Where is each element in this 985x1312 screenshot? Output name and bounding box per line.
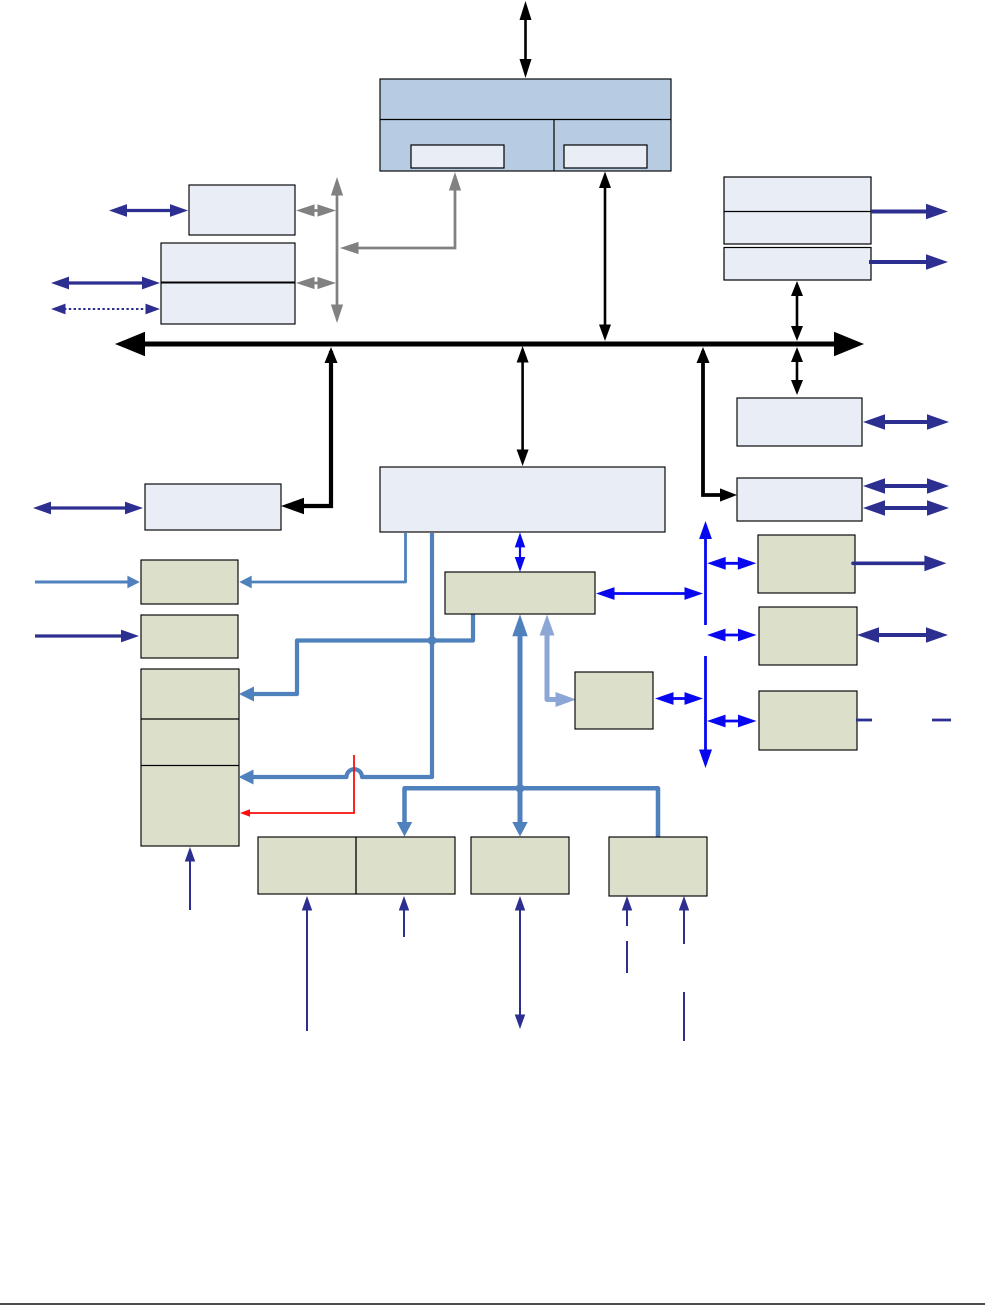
wire: top system-bus double arrow bbox=[524, 18, 527, 61]
box: debug interface block L1 bbox=[189, 185, 295, 235]
wire: steel junction dot v4-h2 bbox=[516, 784, 525, 793]
arrow: steel elbow bridge to K1 bbox=[250, 533, 406, 582]
wire: main system bus horizontal bbox=[143, 342, 836, 347]
arrow: gray elbow from CPU sub-block to gray bus bbox=[357, 188, 455, 248]
wire: stack divider 1 bbox=[141, 718, 239, 720]
arrow: blue double to khaki R2 bbox=[724, 634, 741, 637]
arrow: navy double from R0a right bbox=[883, 420, 929, 424]
arrow: light-steel elbow khaki-center to small box bbox=[547, 632, 556, 700]
box: peripheral bridge (center) bbox=[380, 467, 665, 532]
box: right oscillator block (two cells) bbox=[724, 177, 871, 244]
box: khaki block R2 bbox=[759, 607, 857, 665]
box: khaki block R3 bbox=[759, 691, 857, 750]
arrow: navy thin short up into B1 right bbox=[403, 909, 405, 938]
box: khaki small block bbox=[575, 672, 653, 729]
box: khaki stack three cells bbox=[141, 669, 239, 846]
wire: blue vertical bus upper bbox=[704, 537, 707, 625]
box: khaki block K2 bbox=[141, 615, 238, 658]
wire: gray vertical bus bbox=[336, 194, 339, 307]
arrow: navy thin up into stack bottom bbox=[189, 860, 191, 911]
box: CPU top block (medium blue) bbox=[380, 79, 671, 171]
box: bottom khaki B2 bbox=[471, 837, 569, 894]
wire: L2 divider bbox=[161, 282, 295, 284]
arrow: red elbow to stack row3 bbox=[250, 755, 354, 813]
box: CPU inner sub-block right bbox=[564, 145, 647, 168]
wire: steel junction dot v2-h1 bbox=[428, 636, 437, 645]
arrow: blue double khaki-center to blue bus bbox=[613, 592, 687, 595]
arrow: black elbow bus to box C1 bbox=[300, 351, 331, 506]
arrow: steel elbow khaki-center to stack row1 bbox=[252, 611, 473, 694]
arrow: blue double to khaki R1 bbox=[724, 562, 740, 565]
arrow: black elbow bus to R0b bbox=[703, 351, 722, 495]
arrow: navy double from R2 bbox=[877, 633, 928, 637]
arrow: gray double-head L1 to gray bus bbox=[313, 209, 320, 212]
arrow: steel elbow bridge to stack row3 with hop over red bbox=[252, 533, 432, 777]
box: bottom khaki B1 (two cells) bbox=[258, 837, 455, 894]
arrow: black double bus to peripheral bridge bbox=[521, 361, 524, 452]
box: block C1 bbox=[145, 484, 281, 530]
wire: B1 divider bbox=[355, 837, 357, 894]
box: khaki block R1 bbox=[758, 535, 855, 593]
arrow: black double osc-block to bus bbox=[796, 294, 799, 328]
box: right clock output block bbox=[724, 248, 871, 281]
arrow: steel vertical DMA double with branch bbox=[518, 634, 523, 824]
box: bottom khaki B3 bbox=[609, 837, 707, 896]
arrow: navy thin long up into B1 left bbox=[306, 909, 308, 1032]
box: block R0b bbox=[737, 478, 862, 521]
box: left block L2 (two cells) bbox=[161, 243, 295, 324]
arrow: navy out of R1 bbox=[853, 561, 926, 565]
arrow: black double bus to box R0a bbox=[796, 360, 799, 382]
arrow: navy double to C1 bbox=[49, 506, 127, 509]
arrow: navy out of clock output bbox=[869, 260, 928, 264]
arrow: navy out of oscillator row2 bbox=[871, 210, 928, 214]
arrow: navy double-head to L1 bbox=[125, 209, 172, 212]
arrow: navy double from R0b right upper bbox=[883, 484, 929, 488]
arrow: navy thin up into B3 right bbox=[683, 909, 685, 945]
wire: navy dash right of R3 inner bbox=[856, 719, 872, 722]
arrow: black double CPU to main bus bbox=[604, 186, 607, 327]
arrow: navy dotted double-head to L2 lower bbox=[64, 308, 148, 310]
arrow: navy into K2 left bbox=[35, 634, 123, 637]
wire: right oscillator divider bbox=[724, 211, 871, 213]
box: CPU inner sub-block left bbox=[411, 145, 504, 168]
box: khaki block K1 bbox=[141, 560, 238, 604]
box: khaki center block bbox=[445, 572, 595, 614]
arrow: steel branch to bottom boxes bbox=[405, 788, 659, 840]
box: flash/RAM block R0a bbox=[737, 398, 862, 446]
wire: CPU block inner divider vertical bbox=[553, 120, 555, 172]
wire: CPU block inner divider horizontal bbox=[380, 119, 671, 121]
arrow: navy thin double under B2 bbox=[519, 909, 521, 1017]
wire: navy dash right of R3 outer bbox=[932, 719, 951, 722]
wire: navy dash under B3 left bbox=[626, 941, 628, 973]
arrow: gray double-head L2 to gray bus bbox=[313, 282, 320, 285]
arrow: steel into K1 left bbox=[35, 581, 129, 584]
wire: bottom page rule bbox=[0, 1303, 985, 1305]
wire: blue vertical bus lower bbox=[704, 656, 707, 752]
arrow: navy double from R0b right lower bbox=[883, 506, 929, 510]
arrow: navy thin up into B3 left bbox=[626, 909, 628, 927]
arrow: blue double bridge to khaki center bbox=[519, 545, 521, 559]
wire: navy dash under B3 right bbox=[683, 992, 685, 1041]
arrow: navy double-head to L2 bbox=[67, 281, 144, 284]
wire: stack divider 2 bbox=[141, 765, 239, 767]
arrow: blue double to khaki R3 bbox=[724, 720, 741, 723]
arrow: blue double small-box to blue bus bbox=[672, 697, 687, 700]
